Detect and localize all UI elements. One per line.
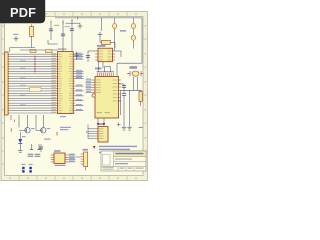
capacitor C12 <box>39 144 43 152</box>
capacitor C1 cross <box>13 34 18 42</box>
test point marks below module <box>117 123 121 127</box>
capacitor C11 <box>122 94 126 128</box>
SIM connector J3 <box>96 123 108 142</box>
ground symbols below module <box>122 127 126 130</box>
crystal X1 top-left <box>30 24 34 47</box>
note text below U1 <box>60 127 71 130</box>
wires to SIM <box>87 125 96 139</box>
wire drops from bus <box>11 115 43 130</box>
LED D2 <box>18 132 25 152</box>
junction marks on bus <box>34 56 36 73</box>
red flag below SIM <box>93 146 96 149</box>
schematic sheet border frame <box>1 12 147 181</box>
module U2 GSM <box>86 67 121 119</box>
PDF file-type badge overlay <box>0 0 45 23</box>
connector J1 left <box>5 52 10 115</box>
IC U4 MAX232 <box>51 150 76 166</box>
capacitor C5 electrolytic <box>113 21 117 51</box>
small part on bus top second <box>46 50 53 53</box>
red pin marks left <box>11 120 14 132</box>
wires top-left <box>10 40 72 52</box>
crystal Y1 <box>127 66 143 90</box>
note text block <box>99 146 137 153</box>
capacitor C10 <box>74 52 78 61</box>
capacitor C2 <box>49 21 59 41</box>
wire U3 outputs <box>99 51 122 72</box>
opto box on bus <box>30 88 42 92</box>
wire module right rail <box>119 84 142 101</box>
labels below U1 <box>44 116 66 140</box>
diode D1 <box>100 37 115 48</box>
capacitor C7 electrolytic <box>132 35 136 49</box>
wire to crystal <box>117 63 142 76</box>
connector J4 <box>76 149 88 171</box>
jumper block JP1 <box>22 164 26 173</box>
transistor Q2 <box>36 128 50 133</box>
title block <box>101 151 146 171</box>
sheet background <box>0 0 149 198</box>
regulator U3 <box>95 45 115 62</box>
test pins with red tips <box>30 144 41 150</box>
IC U1 main <box>56 48 74 113</box>
capacitor C3 <box>61 20 70 41</box>
svg-text:PDF: PDF <box>10 5 36 20</box>
net name labels on bus <box>20 53 56 113</box>
wires below module right <box>119 90 130 127</box>
capacitor C8 cross <box>98 32 103 37</box>
capacitor C4 <box>70 19 74 40</box>
small part on bus top <box>30 50 36 53</box>
capacitor C9 <box>86 51 95 62</box>
wire top bridge <box>66 22 81 24</box>
bus wires J1 to U1 <box>10 54 57 113</box>
jumper block JP2 <box>29 164 33 173</box>
small ground right <box>139 127 143 129</box>
pin circle on module left <box>92 94 95 97</box>
label near C7 <box>120 30 126 32</box>
capacitor C6 electrolytic <box>132 21 136 34</box>
capacitor C13 pair <box>28 154 41 156</box>
power flag cross mid-top <box>78 17 83 29</box>
module bottom pins antenna flags <box>97 118 106 126</box>
power label top-left <box>13 19 19 21</box>
U1 right stub wires <box>75 53 84 111</box>
wire power rail top-right <box>55 18 142 63</box>
resistor R1 <box>139 90 142 106</box>
transistor Q1 <box>19 128 35 133</box>
capacitor C11b <box>122 86 126 88</box>
label above module <box>95 68 102 70</box>
